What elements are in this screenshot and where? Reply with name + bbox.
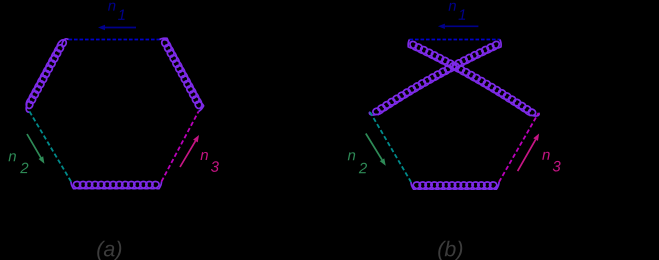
svg-text:(a): (a) xyxy=(96,237,122,260)
svg-text:(b): (b) xyxy=(437,237,463,260)
